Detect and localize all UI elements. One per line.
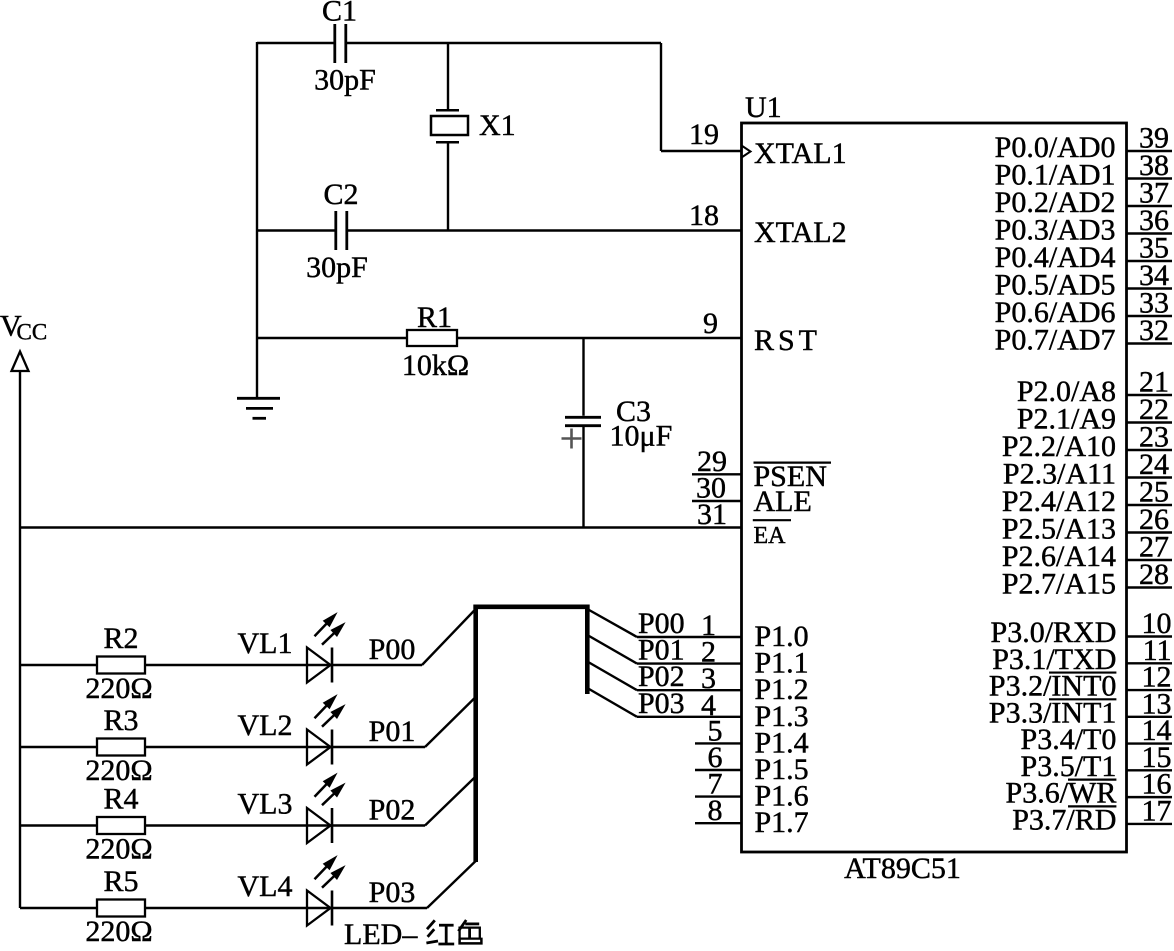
svg-text:P3.7/RD: P3.7/RD — [1012, 803, 1116, 836]
svg-text:32: 32 — [1139, 314, 1169, 347]
svg-text:VL4: VL4 — [238, 870, 293, 903]
svg-text:28: 28 — [1139, 558, 1169, 591]
svg-text:EA: EA — [754, 523, 787, 549]
svg-text:U1: U1 — [745, 91, 782, 124]
svg-text:10kΩ: 10kΩ — [402, 349, 469, 382]
svg-text:220Ω: 220Ω — [85, 833, 152, 866]
svg-text:220Ω: 220Ω — [85, 915, 152, 946]
svg-text:LED–: LED– — [344, 918, 418, 946]
svg-text:P1.7: P1.7 — [755, 806, 809, 839]
svg-text:P02: P02 — [369, 794, 416, 827]
svg-text:10μF: 10μF — [610, 420, 673, 453]
svg-text:AT89C51: AT89C51 — [844, 852, 961, 885]
svg-text:8: 8 — [708, 794, 723, 827]
svg-text:18: 18 — [689, 199, 719, 232]
svg-text:R3: R3 — [103, 704, 138, 737]
svg-text:VL2: VL2 — [238, 709, 293, 742]
svg-text:220Ω: 220Ω — [85, 672, 152, 705]
svg-text:P0.7/AD7: P0.7/AD7 — [995, 324, 1116, 357]
svg-text:ALE: ALE — [754, 485, 812, 518]
svg-text:XTAL2: XTAL2 — [754, 216, 847, 249]
svg-text:P01: P01 — [369, 715, 416, 748]
svg-text:P03: P03 — [638, 687, 685, 720]
svg-text:R4: R4 — [103, 783, 138, 816]
svg-text:XTAL1: XTAL1 — [754, 137, 847, 170]
svg-text:30pF: 30pF — [314, 64, 376, 97]
svg-text:9: 9 — [703, 307, 718, 340]
svg-text:C1: C1 — [322, 0, 357, 28]
svg-text:VL3: VL3 — [238, 787, 293, 820]
svg-text:X1: X1 — [479, 109, 516, 142]
svg-text:R1: R1 — [417, 301, 452, 334]
svg-text:P00: P00 — [369, 633, 416, 666]
svg-text:31: 31 — [697, 498, 727, 531]
svg-text:RST: RST — [754, 324, 817, 357]
svg-text:19: 19 — [689, 118, 719, 151]
svg-text:17: 17 — [1142, 794, 1172, 827]
svg-text:P03: P03 — [369, 876, 416, 909]
svg-text:R5: R5 — [103, 865, 138, 898]
svg-text:C2: C2 — [323, 178, 358, 211]
svg-text:R2: R2 — [103, 622, 138, 655]
svg-text:CC: CC — [17, 320, 48, 345]
svg-text:P2.7/A15: P2.7/A15 — [1002, 568, 1116, 601]
svg-text:VL1: VL1 — [238, 627, 293, 660]
svg-text:30pF: 30pF — [306, 251, 368, 284]
